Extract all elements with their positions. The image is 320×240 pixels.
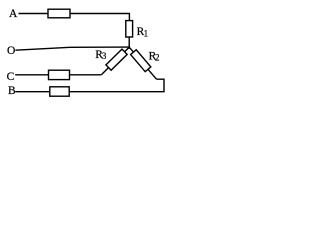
svg-text:3: 3 — [102, 51, 107, 61]
svg-text:B: B — [8, 85, 16, 97]
wire O to junction — [15, 47, 129, 50]
resistor R2 body — [131, 50, 151, 72]
resistor R2 lead (B side) — [148, 69, 157, 79]
resistor (A branch, unlabeled) — [48, 9, 70, 18]
resistor R3 lead (junction side) — [125, 47, 130, 52]
resistor (B branch, unlabeled) — [50, 87, 69, 96]
svg-text:C: C — [7, 71, 15, 83]
wire A to corner and down to R1 — [19, 14, 130, 21]
resistor R1 — [126, 21, 133, 37]
svg-text:O: O — [7, 45, 15, 57]
wire C to R3 lead — [15, 74, 101, 76]
resistor (C branch, unlabeled) — [49, 70, 70, 79]
resistor R3 lead (C side) — [102, 68, 109, 75]
wire B to right riser — [15, 79, 164, 92]
svg-text:2: 2 — [155, 53, 160, 63]
wire R1 bottom to junction — [128, 37, 130, 47]
svg-text:1: 1 — [144, 28, 149, 38]
svg-text:A: A — [9, 8, 18, 20]
junction node — [128, 46, 130, 49]
resistor R2 lead (junction side) — [129, 47, 133, 52]
resistor R3 body — [106, 49, 127, 70]
